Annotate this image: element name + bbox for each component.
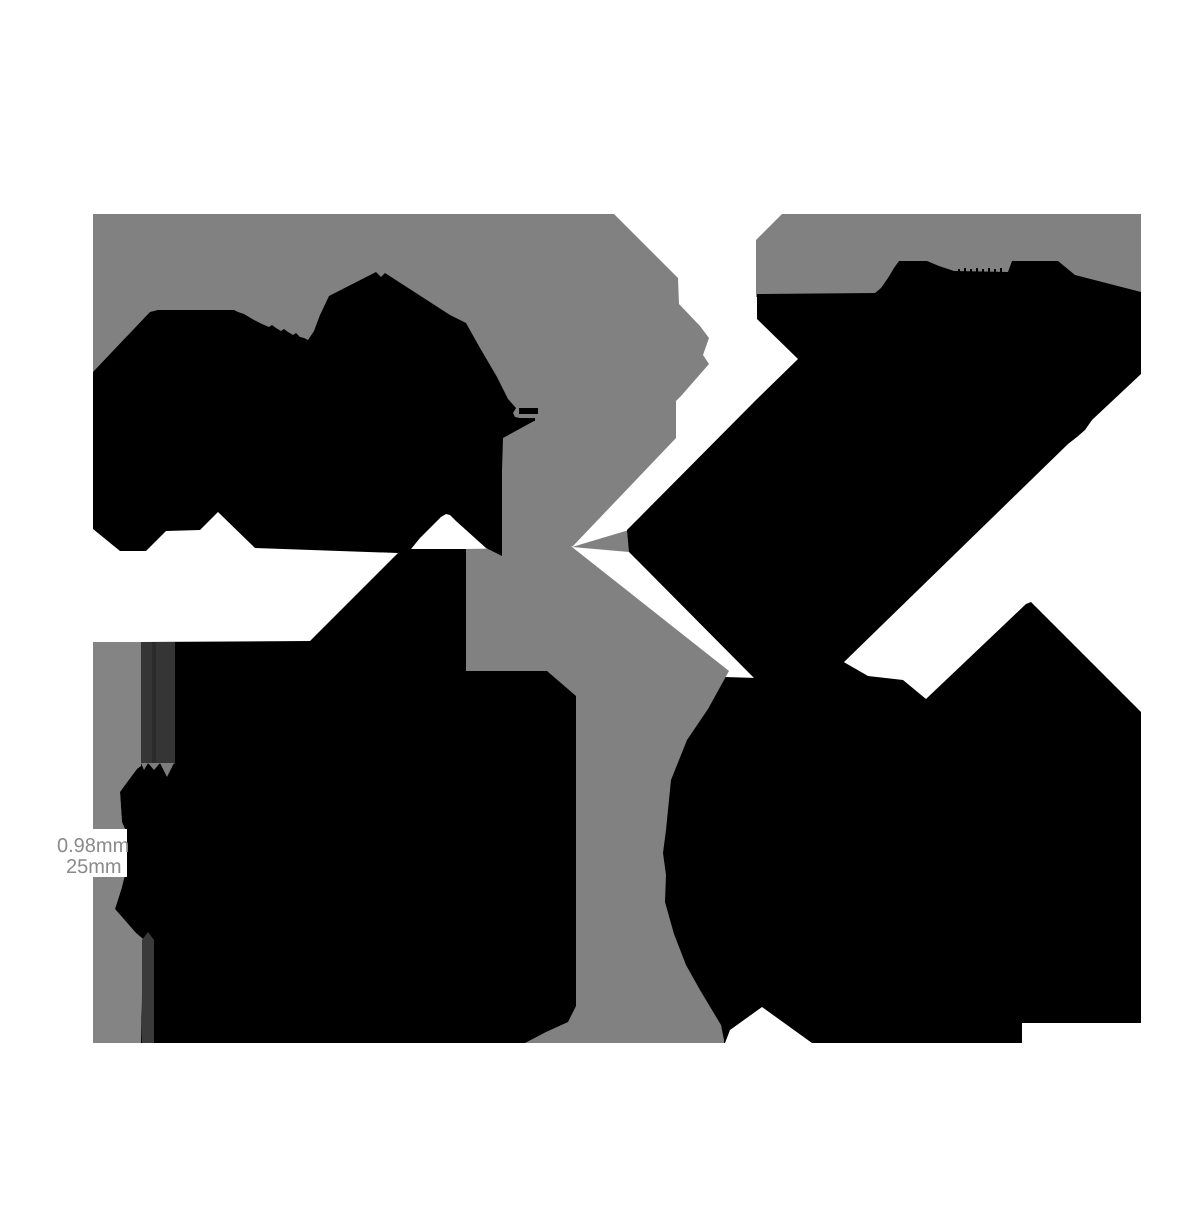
bottom-left dark gray strip upper xyxy=(141,642,175,764)
top-left photo gray background xyxy=(93,214,709,549)
ruler tick marks on blade top edge xyxy=(958,268,1002,272)
svg-text:0.98mm: 0.98mm xyxy=(57,835,129,857)
pocket clip dash 1 xyxy=(519,408,538,414)
top-right photo gray band xyxy=(756,214,1141,297)
bottom-left photo light gray strip xyxy=(93,642,143,1043)
gray wedge between white band arms xyxy=(572,530,629,552)
bottom-left dark gray strip lower xyxy=(142,932,154,1043)
dark strip inner darker line xyxy=(152,642,156,764)
top-left knife silhouette black xyxy=(93,272,534,556)
svg-text:25mm: 25mm xyxy=(66,856,122,878)
pocket clip dash 2 xyxy=(517,418,535,421)
white dimension label box xyxy=(48,829,127,877)
bottom mega black mass (bottom-left product + bottom-right house) xyxy=(115,549,1141,1043)
light gray teeth under dark strip xyxy=(141,763,174,777)
top-right knife blade black xyxy=(627,261,1141,681)
bottom-left gray channel over black xyxy=(466,547,729,1043)
